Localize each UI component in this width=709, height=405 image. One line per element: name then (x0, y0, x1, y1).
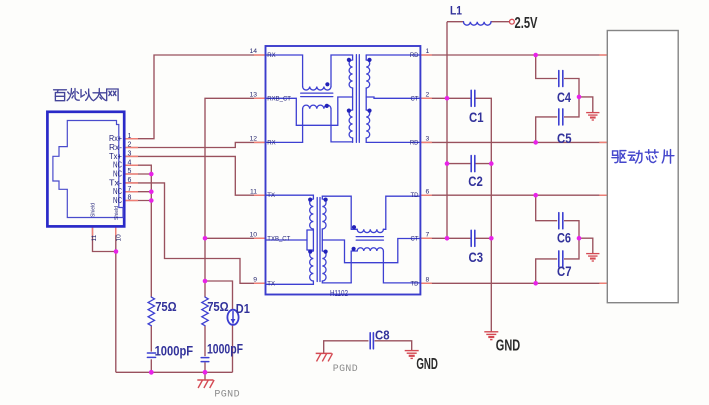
svg-text:75Ω: 75Ω (207, 299, 229, 314)
svg-text:RX: RX (267, 53, 275, 59)
svg-text:Tx-: Tx- (109, 178, 122, 187)
svg-text:NC: NC (113, 187, 122, 196)
svg-text:PGND: PGND (214, 388, 240, 400)
svg-text:7: 7 (426, 232, 430, 239)
svg-text:3: 3 (426, 136, 430, 143)
svg-text:H1102: H1102 (330, 288, 348, 298)
svg-text:NC: NC (113, 161, 122, 170)
svg-text:6: 6 (426, 188, 430, 195)
svg-text:11: 11 (91, 234, 98, 241)
svg-text:RXB_CT: RXB_CT (267, 96, 291, 102)
svg-text:1: 1 (128, 133, 132, 140)
svg-text:CT: CT (411, 236, 419, 242)
svg-text:10: 10 (116, 234, 123, 242)
svg-text:1: 1 (426, 48, 430, 55)
svg-text:2: 2 (128, 142, 132, 149)
svg-text:C1: C1 (469, 110, 484, 125)
svg-text:TD: TD (411, 281, 420, 287)
svg-text:1000pF: 1000pF (155, 344, 194, 359)
svg-text:3: 3 (128, 151, 132, 158)
svg-text:D1: D1 (236, 301, 250, 316)
svg-text:2: 2 (426, 92, 430, 99)
svg-text:Shield: Shield (114, 206, 120, 220)
svg-text:RD: RD (410, 140, 419, 146)
svg-text:Tx+: Tx+ (109, 152, 122, 161)
svg-text:CT: CT (411, 96, 419, 102)
svg-text:11: 11 (250, 188, 257, 195)
svg-text:C3: C3 (469, 250, 484, 265)
svg-text:TD: TD (411, 193, 420, 199)
svg-text:Rx+: Rx+ (109, 134, 122, 143)
svg-text:14: 14 (249, 48, 257, 55)
svg-text:TXB_CT: TXB_CT (267, 236, 290, 242)
svg-text:5: 5 (128, 168, 132, 175)
svg-text:RX: RX (267, 140, 275, 146)
svg-text:C5: C5 (557, 131, 572, 146)
svg-text:RD: RD (410, 53, 419, 59)
svg-text:GND: GND (416, 356, 438, 373)
svg-text:C2: C2 (468, 174, 483, 189)
svg-text:7: 7 (128, 186, 132, 193)
svg-text:2.5V: 2.5V (515, 15, 538, 32)
svg-text:4: 4 (128, 159, 132, 166)
svg-text:10: 10 (249, 232, 257, 239)
svg-text:12: 12 (249, 136, 257, 143)
svg-text:C4: C4 (557, 90, 571, 105)
svg-text:PGND: PGND (333, 363, 358, 375)
svg-text:C8: C8 (375, 327, 390, 342)
svg-text:Shield: Shield (91, 203, 97, 217)
svg-text:C7: C7 (557, 264, 572, 279)
svg-text:Rx-: Rx- (109, 143, 122, 152)
svg-text:TX: TX (267, 281, 275, 287)
svg-text:NC: NC (113, 169, 122, 178)
svg-text:TX: TX (267, 193, 275, 199)
svg-text:9: 9 (253, 277, 257, 284)
svg-text:13: 13 (249, 92, 257, 99)
svg-text:8: 8 (128, 195, 132, 202)
svg-text:GND: GND (496, 338, 520, 355)
svg-text:C6: C6 (557, 231, 571, 246)
svg-text:8: 8 (426, 277, 430, 284)
svg-text:6: 6 (128, 177, 132, 184)
svg-text:75Ω: 75Ω (155, 299, 177, 314)
svg-text:1000pF: 1000pF (207, 342, 243, 357)
svg-text:L1: L1 (450, 3, 462, 17)
svg-text:NC: NC (113, 196, 122, 205)
